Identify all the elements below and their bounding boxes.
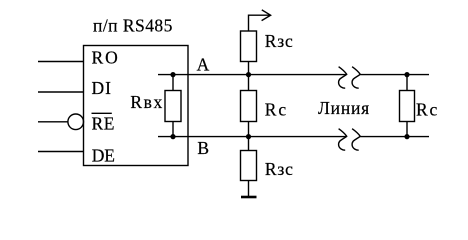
wire line B left segment [158, 136, 347, 138]
pin RE stub [38, 121, 68, 123]
line break squiggle B2 [352, 129, 360, 151]
wire Rzs-top to line A [248, 62, 250, 75]
wire Rvx top [172, 75, 174, 91]
line break squiggle A2 [352, 67, 360, 89]
overline of RE label [92, 112, 112, 114]
svg-text:Rзс: Rзс [265, 159, 293, 179]
svg-text:Линия: Линия [318, 98, 369, 118]
svg-text:DE: DE [92, 146, 115, 166]
junction dot B-Rvx [170, 134, 175, 139]
wire Rzs bottom to ground [248, 181, 250, 197]
junction dot B-middle [246, 134, 251, 139]
resistor Rc right [400, 91, 415, 122]
junction dot A-right [404, 72, 409, 77]
resistor Rc middle [241, 91, 257, 122]
svg-text:Rвх: Rвх [130, 92, 162, 112]
power arrow head [262, 10, 271, 21]
wire line B to Rzs bottom [248, 137, 250, 151]
wire line A left segment [158, 74, 347, 76]
junction dot A-middle [246, 72, 251, 77]
svg-text:Rc: Rc [416, 100, 438, 120]
pin DE stub [38, 151, 84, 153]
transceiver box U1 [84, 46, 189, 166]
inversion bubble on RE [68, 114, 84, 130]
pin DI stub [38, 91, 84, 93]
junction dot A-Rvx [170, 72, 175, 77]
ground [241, 196, 257, 199]
power arrow stem [249, 15, 271, 31]
resistor Rzs top [241, 31, 257, 62]
wire Rvx bottom [172, 122, 174, 137]
line break squiggle B1 [339, 129, 347, 151]
wire right Rc top [406, 75, 408, 91]
wire line A to Rc middle [248, 75, 250, 91]
svg-text:RO: RO [92, 47, 118, 67]
line break squiggle A1 [339, 67, 347, 89]
svg-text:Rc: Rc [265, 99, 287, 119]
pin RO stub [38, 61, 84, 63]
wire Rc middle to line B [248, 122, 250, 137]
wire right Rc bottom [406, 122, 408, 137]
resistor Rvx [165, 91, 181, 122]
resistor Rzs bottom [241, 151, 257, 181]
svg-text:п/п RS485: п/п RS485 [93, 16, 173, 36]
svg-text:Rзс: Rзс [265, 31, 293, 51]
wire line A right segment [360, 74, 429, 76]
svg-text:A: A [197, 54, 210, 74]
svg-text:B: B [197, 138, 209, 158]
junction dot B-right [404, 134, 409, 139]
svg-text:DI: DI [92, 78, 112, 98]
svg-text:RE: RE [92, 114, 115, 134]
wire line B right segment [360, 136, 429, 138]
